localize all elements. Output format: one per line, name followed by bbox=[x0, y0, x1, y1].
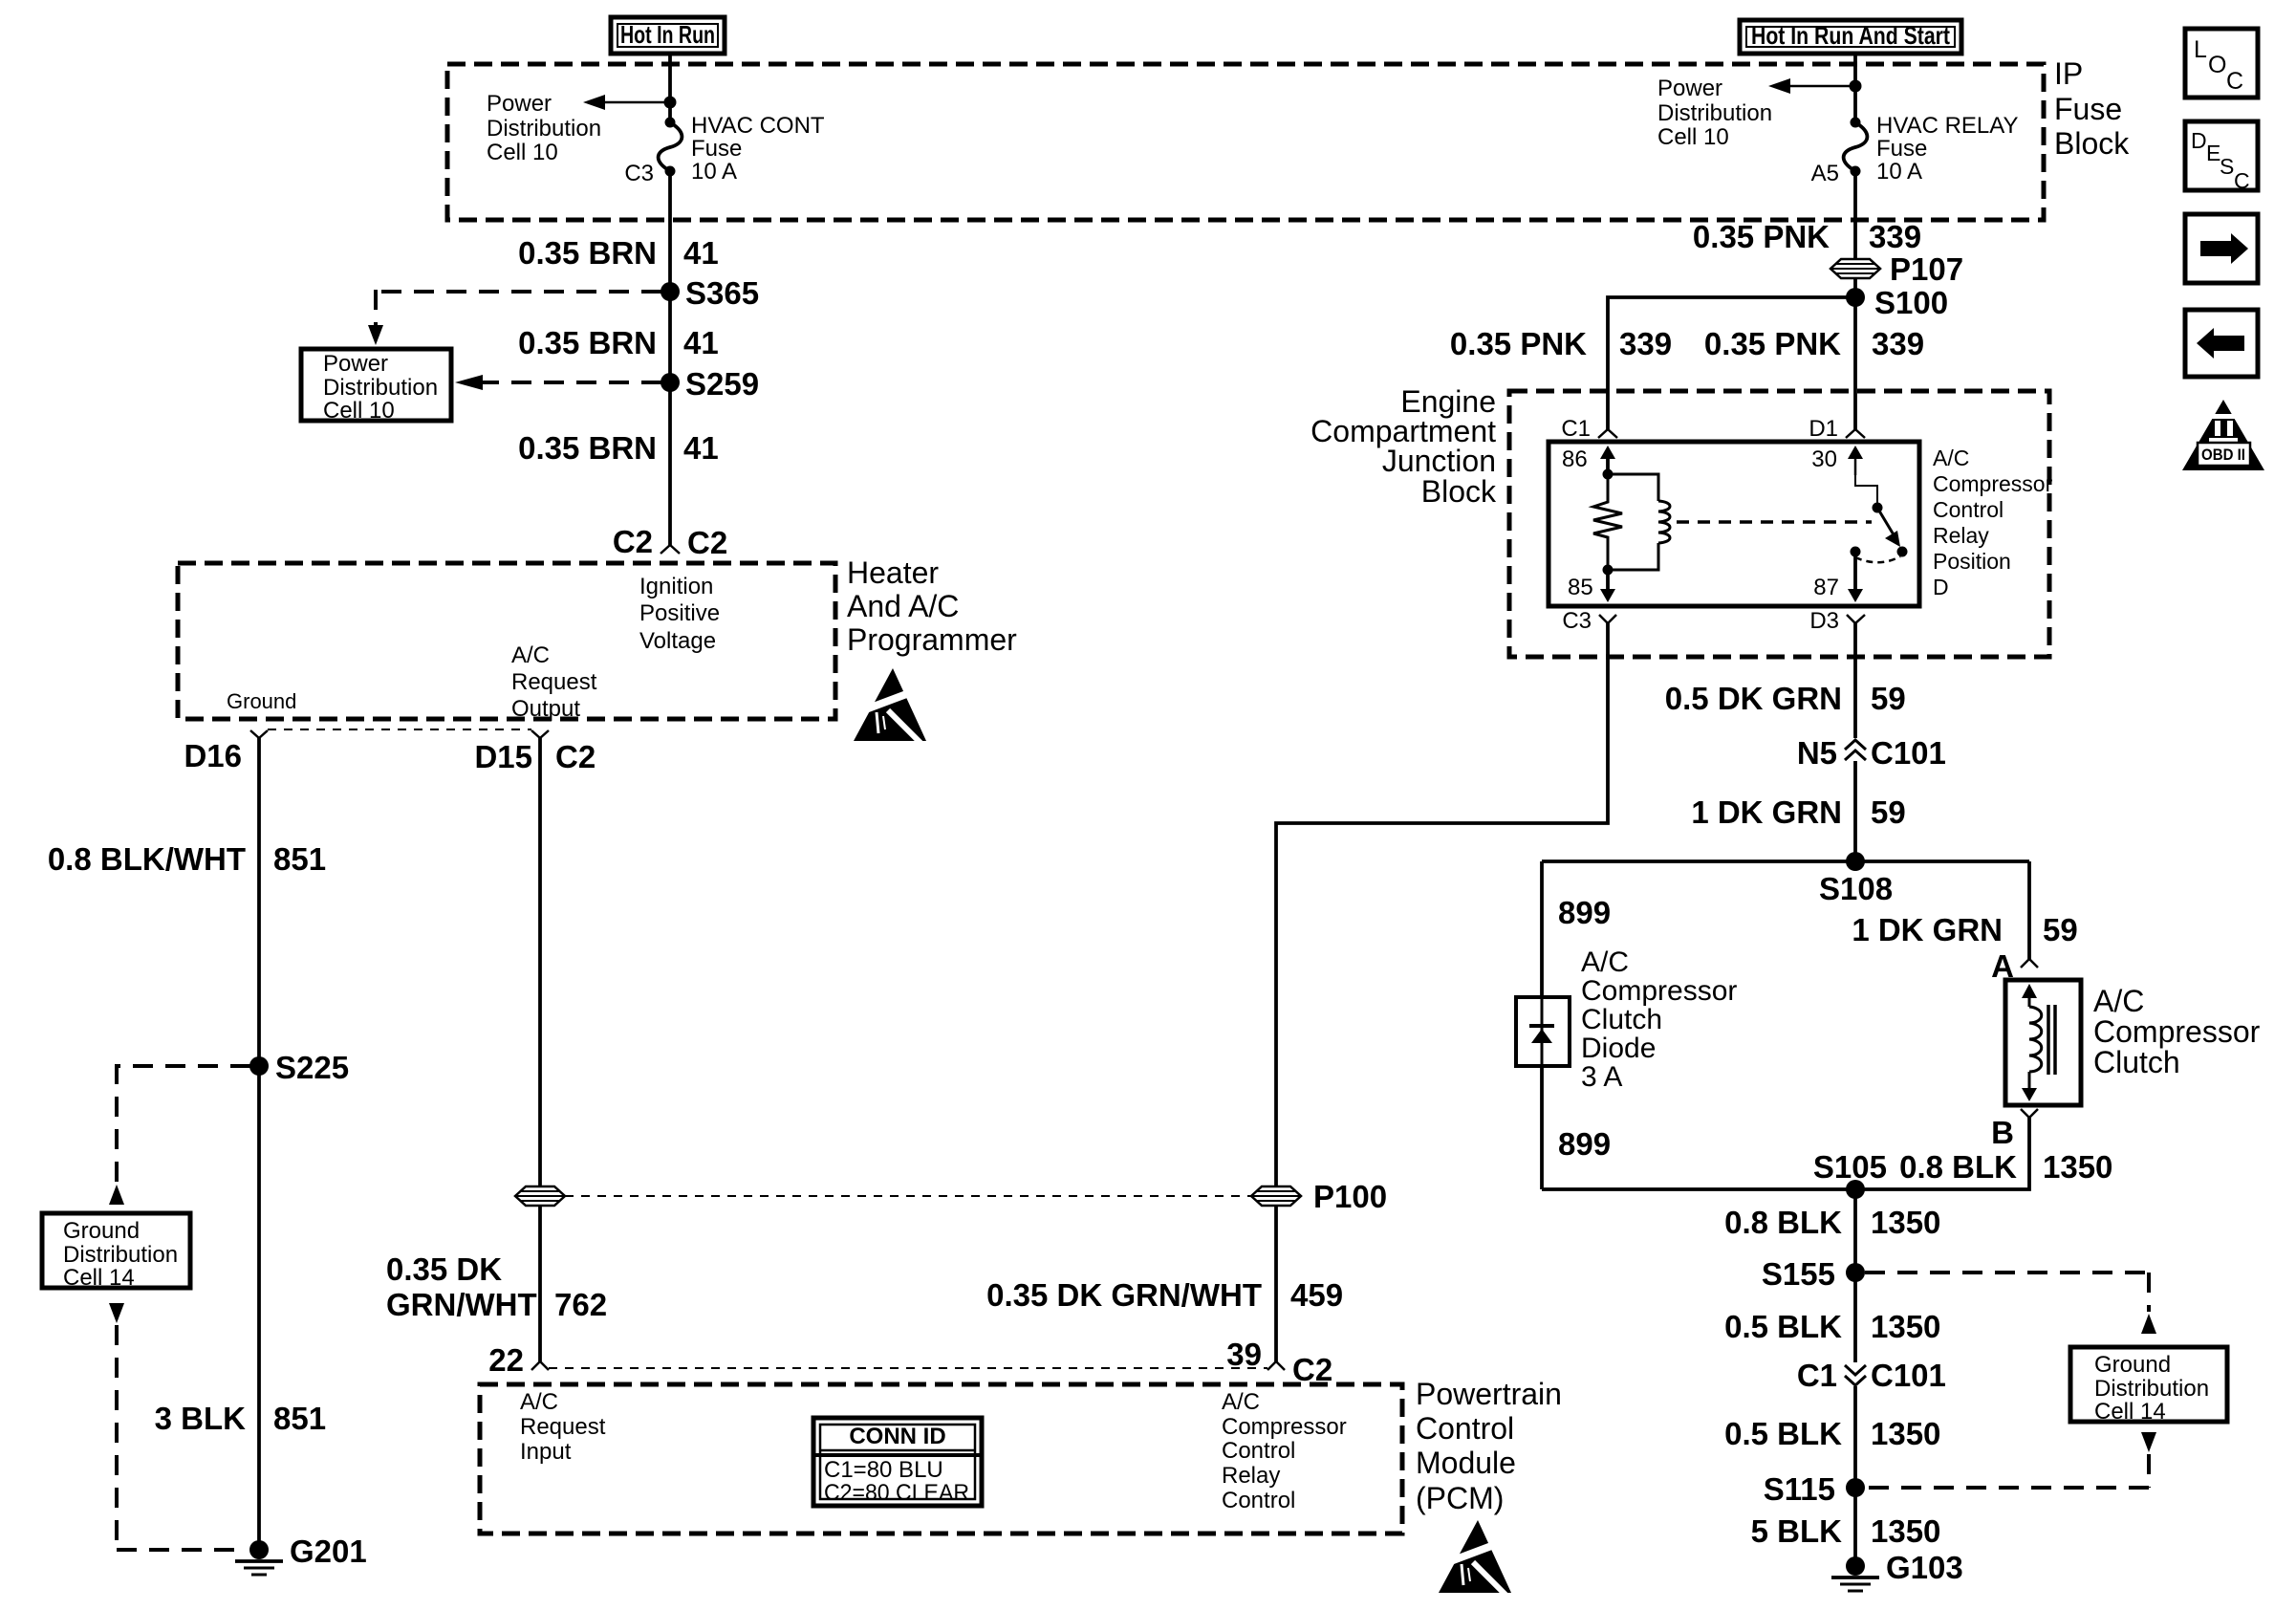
label 899 (bottom) bbox=[1558, 1126, 1611, 1162]
label C2 C2 bbox=[613, 524, 727, 560]
svg-text:1350: 1350 bbox=[1871, 1416, 1940, 1451]
svg-text:339: 339 bbox=[1869, 219, 1921, 254]
svg-text:0.35 BRN: 0.35 BRN bbox=[518, 430, 657, 466]
svg-text:D: D bbox=[1933, 575, 1949, 599]
label A/C Compressor Clutch bbox=[2093, 984, 2261, 1079]
wire D16 to G201 bbox=[257, 738, 261, 1550]
svg-text:S115: S115 bbox=[1764, 1471, 1835, 1507]
pin C2 into programmer bbox=[661, 545, 680, 554]
wire diode branch left bbox=[1540, 861, 1544, 997]
svg-text:G103: G103 bbox=[1886, 1550, 1963, 1585]
svg-text:Diode: Diode bbox=[1581, 1033, 1656, 1064]
svg-text:A5: A5 bbox=[1811, 161, 1839, 186]
svg-text:Control: Control bbox=[1222, 1488, 1295, 1513]
svg-text:Distribution: Distribution bbox=[487, 116, 601, 141]
svg-text:0.35 PNK: 0.35 PNK bbox=[1450, 326, 1587, 361]
label A/C Compressor Control Relay Control bbox=[1222, 1389, 1347, 1513]
svg-text:59: 59 bbox=[1871, 794, 1906, 830]
box Ground Distribution Cell 14 (left) bbox=[42, 1213, 190, 1291]
dashed link S155 to Ground Distribution (right) bbox=[1865, 1273, 2156, 1334]
pin D15 out of programmer bbox=[474, 730, 596, 774]
label Power Distribution Cell 10 (fuse box right) bbox=[1657, 76, 1772, 150]
svg-text:Voltage: Voltage bbox=[639, 628, 716, 654]
splice S225 bbox=[249, 1050, 349, 1085]
wire diode to loop bottom bbox=[1540, 1066, 1544, 1189]
svg-text:D16: D16 bbox=[184, 738, 242, 773]
svg-text:Ignition: Ignition bbox=[639, 574, 713, 599]
splice S105 bbox=[1846, 1180, 1865, 1199]
svg-text:C: C bbox=[2226, 68, 2243, 95]
label 1 DK GRN 59 bbox=[1691, 794, 1905, 830]
svg-text:0.35 PNK: 0.35 PNK bbox=[1693, 219, 1830, 254]
label 5 BLK 1350 bbox=[1751, 1513, 1941, 1549]
svg-text:0.5 BLK: 0.5 BLK bbox=[1724, 1416, 1842, 1451]
svg-text:0.35 PNK: 0.35 PNK bbox=[1704, 326, 1841, 361]
icon left-arrow box bbox=[2185, 310, 2258, 377]
svg-text:1350: 1350 bbox=[2043, 1149, 2112, 1185]
svg-text:Cell 14: Cell 14 bbox=[2094, 1399, 2166, 1425]
relay coil node bottom bbox=[1603, 565, 1614, 576]
svg-text:S225: S225 bbox=[275, 1050, 349, 1085]
svg-text:S108: S108 bbox=[1819, 871, 1893, 906]
box Ground Distribution Cell 14 (right) bbox=[2070, 1347, 2227, 1425]
icon DESC box bbox=[2185, 121, 2258, 193]
relay coil branch bbox=[1608, 474, 1670, 570]
wire fuse C3 down to C2 pin bbox=[668, 171, 672, 545]
net dotted D16 to D15 bbox=[268, 729, 531, 730]
svg-text:Relay: Relay bbox=[1933, 523, 1989, 548]
label 0.35 BRN 41 (above S365) bbox=[518, 235, 719, 271]
ESD symbol (PCM) bbox=[1439, 1520, 1511, 1595]
svg-text:Fuse: Fuse bbox=[1876, 136, 1927, 162]
relay position-D dashed arc bbox=[1855, 556, 1900, 562]
svg-text:Power: Power bbox=[1657, 76, 1722, 101]
svg-text:Relay: Relay bbox=[1222, 1463, 1280, 1489]
svg-text:C3: C3 bbox=[1562, 608, 1592, 634]
relay pin 30 arrow bbox=[1811, 446, 1863, 475]
svg-text:Control: Control bbox=[1933, 497, 2004, 522]
svg-text:10 A: 10 A bbox=[691, 159, 737, 185]
svg-text:1350: 1350 bbox=[1871, 1309, 1940, 1344]
splice S259 bbox=[661, 366, 759, 402]
label A/C Compressor Clutch Diode 3 A bbox=[1581, 946, 1737, 1093]
ESD symbol (programmer) bbox=[854, 668, 926, 743]
svg-text:IP: IP bbox=[2054, 56, 2083, 91]
svg-text:Block: Block bbox=[1421, 474, 1497, 509]
pin B out of clutch bbox=[1991, 1109, 2038, 1150]
label S105 0.8 BLK 1350 bbox=[1813, 1149, 2113, 1185]
svg-text:Module: Module bbox=[1416, 1446, 1516, 1480]
svg-text:CONN ID: CONN ID bbox=[849, 1424, 945, 1449]
svg-text:Positive: Positive bbox=[639, 600, 720, 626]
svg-text:1 DK GRN: 1 DK GRN bbox=[1852, 912, 2003, 947]
label 0.8 BLK 1350 bbox=[1724, 1205, 1940, 1240]
label 0.5 BLK 1350 (below C101) bbox=[1724, 1416, 1940, 1451]
pin 39 into PCM bbox=[1226, 1337, 1332, 1387]
svg-text:10 A: 10 A bbox=[1876, 159, 1922, 185]
svg-text:Clutch: Clutch bbox=[2093, 1045, 2180, 1079]
label 3 BLK 851 bbox=[155, 1401, 326, 1436]
svg-text:A/C: A/C bbox=[520, 1389, 558, 1415]
svg-text:C3: C3 bbox=[624, 161, 654, 186]
svg-text:S105: S105 bbox=[1813, 1149, 1887, 1185]
diode box A/C Compressor Clutch Diode bbox=[1516, 997, 1570, 1066]
connector P100 (right half) bbox=[1251, 1179, 1387, 1214]
svg-text:Compressor: Compressor bbox=[2093, 1014, 2261, 1049]
svg-text:59: 59 bbox=[2043, 912, 2078, 947]
dashed arrow S259 to Power Distribution box bbox=[455, 375, 661, 390]
svg-text:Power: Power bbox=[487, 91, 552, 117]
svg-text:D15: D15 bbox=[474, 739, 532, 774]
svg-text:Block: Block bbox=[2054, 126, 2130, 161]
ground G103 bbox=[1831, 1550, 1963, 1591]
Engine Compartment Junction Block dashed box bbox=[1509, 391, 2049, 657]
pin 22 into PCM bbox=[488, 1342, 549, 1378]
svg-text:A/C: A/C bbox=[1933, 446, 1969, 470]
wire P100 to PCM pin 22 bbox=[538, 1207, 542, 1361]
svg-text:3 A: 3 A bbox=[1581, 1061, 1622, 1093]
relay pin 86 arrow bbox=[1562, 446, 1615, 474]
svg-text:41: 41 bbox=[683, 325, 719, 360]
pin D1 into relay bbox=[1809, 416, 1865, 442]
Heater And A/C Programmer dashed box bbox=[178, 563, 835, 719]
svg-text:Cell 14: Cell 14 bbox=[63, 1265, 135, 1291]
wire arrow to Power Distribution (right fuse) bbox=[1768, 78, 1855, 94]
svg-text:Distribution: Distribution bbox=[2094, 1376, 2209, 1402]
svg-text:Position: Position bbox=[1933, 549, 2011, 574]
fuse HVAC CONT 10A bbox=[659, 118, 682, 177]
svg-text:86: 86 bbox=[1562, 446, 1588, 472]
svg-text:C101: C101 bbox=[1871, 1358, 1946, 1393]
svg-text:Junction: Junction bbox=[1382, 444, 1496, 478]
svg-text:C101: C101 bbox=[1871, 735, 1946, 771]
svg-text:0.35 BRN: 0.35 BRN bbox=[518, 235, 657, 271]
svg-text:C2: C2 bbox=[1292, 1352, 1332, 1387]
svg-text:Clutch: Clutch bbox=[1581, 1004, 1662, 1035]
relay resistor bbox=[1593, 474, 1622, 570]
fuse HVAC RELAY 10A bbox=[1844, 118, 1868, 177]
svg-text:A/C: A/C bbox=[1222, 1389, 1260, 1415]
svg-text:Cell 10: Cell 10 bbox=[1657, 124, 1729, 150]
label C3 (fuse pin) bbox=[624, 161, 654, 186]
connector C101 (N5) bbox=[1797, 735, 1946, 771]
svg-text:Fuse: Fuse bbox=[691, 136, 742, 162]
svg-text:Request: Request bbox=[520, 1414, 606, 1440]
svg-text:D: D bbox=[2191, 128, 2207, 153]
svg-text:G201: G201 bbox=[290, 1534, 367, 1569]
wire branch S100 to relay C1 bbox=[1608, 297, 1847, 429]
label Power Distribution Cell 10 (fuse box left) bbox=[487, 91, 601, 165]
wire P100 right to pin 39 bbox=[1274, 1207, 1278, 1361]
svg-text:GRN/WHT: GRN/WHT bbox=[386, 1287, 537, 1322]
svg-text:A/C: A/C bbox=[511, 642, 550, 668]
svg-text:0.35 BRN: 0.35 BRN bbox=[518, 325, 657, 360]
svg-text:339: 339 bbox=[1619, 326, 1672, 361]
svg-text:Compressor: Compressor bbox=[1222, 1414, 1347, 1440]
svg-text:85: 85 bbox=[1568, 575, 1593, 600]
svg-text:A/C: A/C bbox=[1581, 946, 1629, 978]
svg-text:459: 459 bbox=[1290, 1277, 1343, 1313]
svg-text:899: 899 bbox=[1558, 1126, 1611, 1162]
svg-text:41: 41 bbox=[683, 430, 719, 466]
wire fuse A5 down to P107 bbox=[1853, 171, 1857, 259]
label 0.35 BRN 41 (above C2 pin) bbox=[518, 430, 719, 466]
svg-text:HVAC RELAY: HVAC RELAY bbox=[1876, 113, 2019, 139]
wire clutch B down to loop bottom bbox=[1542, 1118, 2029, 1189]
dashed link S365 to Power Distribution box bbox=[368, 290, 661, 345]
svg-text:HVAC CONT: HVAC CONT bbox=[691, 113, 825, 139]
svg-text:1 DK GRN: 1 DK GRN bbox=[1691, 794, 1842, 830]
svg-text:C2: C2 bbox=[613, 524, 653, 559]
svg-text:P107: P107 bbox=[1890, 251, 1963, 287]
wire S108 to clutch pin A bbox=[2027, 861, 2031, 959]
label 1 DK GRN 59 (clutch feed) bbox=[1852, 912, 2077, 947]
box Power Distribution Cell 10 bbox=[301, 349, 451, 424]
pin A into clutch bbox=[1991, 948, 2038, 984]
relay pin 85 arrow bbox=[1568, 570, 1615, 602]
svg-text:87: 87 bbox=[1813, 575, 1839, 600]
svg-text:851: 851 bbox=[273, 1401, 326, 1436]
wire arrow to Power Distribution (left fuse) bbox=[583, 95, 670, 110]
svg-text:Distribution: Distribution bbox=[1657, 100, 1772, 126]
label A/C Compressor Control Relay Position D bbox=[1933, 446, 2053, 599]
svg-text:S155: S155 bbox=[1762, 1256, 1835, 1292]
svg-text:C: C bbox=[2234, 168, 2250, 193]
label 0.35 PNK 339 (right branch) bbox=[1704, 326, 1924, 361]
label 0.35 PNK 339 (left branch) bbox=[1450, 326, 1672, 361]
svg-text:Cell 10: Cell 10 bbox=[487, 140, 558, 165]
svg-text:C2=80 CLEAR: C2=80 CLEAR bbox=[824, 1480, 969, 1506]
svg-text:Powertrain: Powertrain bbox=[1416, 1377, 1562, 1411]
dashed link Ground Distribution box to G201 bbox=[109, 1303, 247, 1550]
svg-text:P100: P100 bbox=[1313, 1179, 1387, 1214]
svg-text:Hot In Run And Start: Hot In Run And Start bbox=[1751, 21, 1950, 50]
label 0.8 BLK/WHT 851 bbox=[48, 841, 326, 877]
svg-text:0.8 BLK: 0.8 BLK bbox=[1724, 1205, 1842, 1240]
table CONN ID bbox=[813, 1418, 982, 1506]
wire relay D3 down to S108 bbox=[1853, 623, 1857, 861]
svg-text:0.8 BLK/WHT: 0.8 BLK/WHT bbox=[48, 841, 246, 877]
svg-text:Hot In Run: Hot In Run bbox=[620, 20, 715, 49]
svg-text:1350: 1350 bbox=[1871, 1513, 1940, 1549]
clutch coil with arrows bbox=[2022, 984, 2042, 1101]
svg-text:30: 30 bbox=[1811, 446, 1837, 472]
svg-text:Power: Power bbox=[323, 351, 388, 377]
connector C101 (C1) bbox=[1797, 1358, 1946, 1393]
label 0.5 BLK 1350 (above C101) bbox=[1724, 1309, 1940, 1344]
svg-text:0.5 DK GRN: 0.5 DK GRN bbox=[1665, 681, 1842, 716]
relay switch blade bbox=[1855, 475, 1900, 547]
svg-text:C1: C1 bbox=[1561, 416, 1591, 442]
wire S105 to G103 bbox=[1853, 1189, 1857, 1566]
svg-text:899: 899 bbox=[1558, 895, 1611, 930]
svg-text:339: 339 bbox=[1872, 326, 1924, 361]
svg-text:C1: C1 bbox=[1797, 1358, 1837, 1393]
svg-text:Output: Output bbox=[511, 696, 580, 722]
relay coil-to-switch dashed link bbox=[1677, 520, 1872, 524]
label 0.35 PNK 339 (above P107) bbox=[1693, 219, 1921, 254]
relay coil node top bbox=[1603, 469, 1614, 480]
pin D16 out of programmer bbox=[184, 730, 268, 773]
icon right-arrow box bbox=[2185, 214, 2258, 283]
svg-text:Distribution: Distribution bbox=[63, 1242, 178, 1268]
svg-text:0.35 DK GRN/WHT: 0.35 DK GRN/WHT bbox=[986, 1277, 1262, 1313]
label 0.35 BRN 41 (S365 to S259) bbox=[518, 325, 719, 360]
connector P100 (left half) bbox=[515, 1186, 565, 1206]
svg-text:851: 851 bbox=[273, 841, 326, 877]
svg-text:S: S bbox=[2220, 154, 2234, 179]
label A/C Request Input bbox=[520, 1389, 606, 1465]
splice S155 bbox=[1762, 1256, 1865, 1292]
label A/C Request Output bbox=[511, 642, 597, 722]
splice S108 bbox=[1819, 852, 1893, 906]
svg-text:5 BLK: 5 BLK bbox=[1751, 1513, 1843, 1549]
wire diode loop top bbox=[1542, 859, 2029, 863]
svg-text:Compressor: Compressor bbox=[1581, 975, 1737, 1007]
splice S365 bbox=[661, 275, 759, 311]
label 899 (top) bbox=[1558, 895, 1611, 930]
label Ground bbox=[227, 689, 296, 713]
svg-text:C1=80 BLU: C1=80 BLU bbox=[824, 1457, 943, 1483]
svg-text:0.8 BLK: 0.8 BLK bbox=[1899, 1149, 2017, 1185]
connector P107 bbox=[1830, 251, 1963, 287]
svg-text:D3: D3 bbox=[1809, 608, 1839, 634]
svg-text:39: 39 bbox=[1226, 1337, 1262, 1372]
svg-text:O: O bbox=[2208, 52, 2226, 78]
icon OBD II triangle bbox=[2182, 400, 2264, 470]
svg-text:S100: S100 bbox=[1874, 285, 1948, 320]
svg-text:Input: Input bbox=[520, 1439, 572, 1465]
svg-text:22: 22 bbox=[488, 1342, 524, 1378]
svg-text:0.35 DK: 0.35 DK bbox=[386, 1251, 502, 1287]
svg-text:59: 59 bbox=[1871, 681, 1906, 716]
svg-text:S365: S365 bbox=[685, 275, 759, 311]
svg-text:Compressor: Compressor bbox=[1933, 471, 2053, 496]
label HVAC CONT Fuse 10 A bbox=[691, 113, 825, 185]
svg-text:Control: Control bbox=[1222, 1438, 1295, 1464]
svg-text:Distribution: Distribution bbox=[323, 375, 438, 401]
svg-text:1350: 1350 bbox=[1871, 1205, 1940, 1240]
pin C1 into relay bbox=[1561, 416, 1617, 442]
svg-text:41: 41 bbox=[683, 235, 719, 271]
dashed link S225 to Ground Distribution box bbox=[109, 1064, 250, 1205]
svg-text:Ground: Ground bbox=[227, 689, 296, 713]
label Heater And A/C Programmer bbox=[847, 555, 1017, 657]
svg-text:Control: Control bbox=[1416, 1411, 1514, 1446]
svg-text:Heater: Heater bbox=[847, 555, 939, 590]
wire relay C3 branch to P100 right bbox=[1276, 623, 1608, 1186]
svg-text:D1: D1 bbox=[1809, 416, 1838, 442]
label HVAC RELAY Fuse 10 A bbox=[1876, 113, 2019, 185]
node Hot In Run And Start bbox=[1740, 20, 1961, 54]
label IP Fuse Block bbox=[2054, 56, 2130, 161]
svg-text:Cell 10: Cell 10 bbox=[323, 398, 395, 424]
svg-text:C2: C2 bbox=[687, 525, 727, 560]
relay pin 87 arrow bbox=[1813, 547, 1863, 603]
relay box A/C Compressor Control Relay bbox=[1549, 442, 1919, 606]
ground G201 bbox=[235, 1534, 367, 1575]
diode symbol bbox=[1529, 997, 1554, 1066]
svg-text:L: L bbox=[2194, 36, 2207, 63]
svg-text:Fuse: Fuse bbox=[2054, 92, 2122, 126]
wire D15 down to P100 bbox=[538, 738, 542, 1186]
wire from Hot In Run to fuse F1 bbox=[668, 54, 672, 122]
svg-text:Request: Request bbox=[511, 669, 597, 695]
net dotted P100 pass-through bbox=[565, 1195, 1251, 1197]
label Ignition Positive Voltage bbox=[639, 574, 720, 654]
node junction above fuse F2 bbox=[1850, 80, 1862, 93]
svg-text:Ground: Ground bbox=[2094, 1352, 2171, 1378]
label 0.35 DK GRN/WHT 459 bbox=[986, 1277, 1343, 1313]
net dotted pin 22 to pin 39 bbox=[549, 1367, 1267, 1369]
splice S100 bbox=[1846, 285, 1948, 320]
dashed link Ground Distribution (right) to S115 bbox=[1865, 1432, 2156, 1488]
svg-text:0.5 BLK: 0.5 BLK bbox=[1724, 1309, 1842, 1344]
svg-text:B: B bbox=[1991, 1115, 2014, 1150]
clutch box A/C Compressor Clutch bbox=[2005, 980, 2081, 1105]
svg-text:OBD II: OBD II bbox=[2201, 446, 2245, 464]
svg-text:A/C: A/C bbox=[2093, 984, 2144, 1018]
label Powertrain Control Module (PCM) bbox=[1416, 1377, 1562, 1515]
PCM dashed box bbox=[480, 1384, 1402, 1534]
svg-text:And A/C: And A/C bbox=[847, 589, 959, 623]
label 0.35 DK GRN/WHT 762 bbox=[386, 1251, 607, 1322]
label Engine Compartment Junction Block bbox=[1310, 384, 1497, 509]
clutch plates bbox=[2048, 1005, 2055, 1075]
node junction above fuse F1 bbox=[664, 97, 677, 109]
svg-text:(PCM): (PCM) bbox=[1416, 1481, 1504, 1515]
relay switch contact dot bbox=[1897, 547, 1908, 557]
pin D3 out of relay bbox=[1809, 608, 1865, 634]
icon LOC box bbox=[2185, 29, 2258, 98]
svg-text:3 BLK: 3 BLK bbox=[155, 1401, 247, 1436]
label A5 (fuse pin) bbox=[1811, 161, 1839, 186]
svg-text:S259: S259 bbox=[685, 366, 759, 402]
wire P107 to S100 bbox=[1853, 278, 1857, 429]
label 0.5 DK GRN 59 bbox=[1665, 681, 1906, 716]
svg-text:N5: N5 bbox=[1797, 735, 1837, 771]
svg-text:C2: C2 bbox=[555, 739, 596, 774]
splice S115 bbox=[1764, 1471, 1865, 1507]
wire Hot In Run And Start to fuse F2 bbox=[1853, 54, 1857, 122]
svg-text:762: 762 bbox=[554, 1287, 607, 1322]
node Hot In Run bbox=[611, 17, 725, 54]
svg-text:Ground: Ground bbox=[63, 1218, 140, 1244]
svg-text:Programmer: Programmer bbox=[847, 622, 1017, 657]
IP fuse block dashed box bbox=[447, 64, 2044, 220]
pin C3 out of relay bbox=[1562, 608, 1616, 634]
